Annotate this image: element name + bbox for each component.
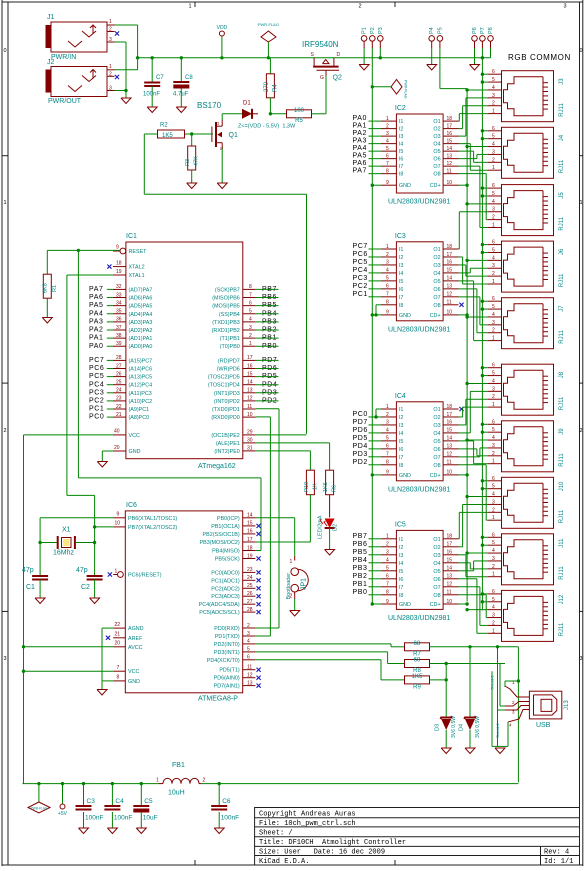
svg-text:1: 1	[3, 200, 6, 206]
svg-text:5: 5	[386, 566, 389, 572]
wire IC1 GND	[102, 450, 113, 452]
svg-text:6: 6	[386, 574, 389, 580]
svg-text:PA5: PA5	[89, 302, 104, 309]
svg-text:(TOSC1)PD4: (TOSC1)PD4	[208, 383, 240, 389]
svg-text:VDD: VDD	[217, 25, 228, 31]
svg-text:3: 3	[3, 656, 6, 662]
svg-text:IRF9540N: IRF9540N	[302, 40, 339, 49]
svg-text:6: 6	[492, 240, 495, 246]
svg-text:O3: O3	[433, 553, 440, 559]
wire PE2 OC1B	[256, 434, 307, 436]
svg-text:11: 11	[447, 590, 452, 596]
svg-text:RJ11: RJ11	[559, 216, 565, 230]
svg-text:2: 2	[492, 215, 495, 221]
svg-text:PC7: PC7	[89, 357, 104, 364]
wire J3 commons	[482, 73, 488, 75]
svg-text:O5: O5	[433, 279, 440, 285]
no-connect IC1 XTAL2	[107, 265, 111, 269]
svg-text:24: 24	[116, 388, 122, 394]
svg-text:7: 7	[386, 452, 389, 458]
wire IC3 CD+	[459, 314, 468, 316]
svg-text:4: 4	[492, 312, 495, 318]
svg-text:PWR/OUT: PWR/OUT	[48, 98, 82, 105]
svg-text:PA2: PA2	[89, 327, 104, 334]
svg-text:PD4(XCK/T0): PD4(XCK/T0)	[207, 658, 240, 664]
svg-text:PA0: PA0	[89, 343, 104, 350]
svg-text:PA1: PA1	[353, 123, 368, 130]
op-amp IC6 right pins	[243, 517, 256, 519]
connector J7 RJ11	[502, 298, 554, 349]
svg-text:3: 3	[492, 320, 495, 326]
svg-text:I4: I4	[399, 142, 404, 148]
svg-text:28: 28	[116, 355, 122, 361]
svg-text:37: 37	[116, 325, 122, 331]
svg-text:9: 9	[116, 245, 119, 251]
svg-text:6: 6	[492, 476, 495, 482]
svg-text:Sheet: /: Sheet: /	[259, 829, 293, 837]
svg-text:(A13)PC5: (A13)PC5	[129, 375, 153, 381]
svg-text:ATMEGA8-P: ATMEGA8-P	[198, 696, 238, 703]
svg-text:9: 9	[117, 512, 120, 518]
svg-text:6: 6	[492, 363, 495, 369]
svg-text:25: 25	[116, 380, 122, 386]
svg-text:Copyright Andreas Auras: Copyright Andreas Auras	[259, 811, 356, 819]
svg-text:7: 7	[386, 292, 389, 298]
svg-text:8: 8	[386, 590, 389, 596]
svg-text:6: 6	[492, 126, 495, 132]
svg-text:PD1(TXD): PD1(TXD)	[215, 634, 240, 640]
svg-text:G: G	[320, 75, 324, 81]
svg-text:O5: O5	[433, 569, 440, 575]
svg-text:13: 13	[447, 574, 453, 580]
svg-text:IC4: IC4	[395, 393, 406, 400]
svg-text:Bootloader: Bootloader	[286, 573, 292, 600]
svg-text:(T1)PB1: (T1)PB1	[220, 336, 240, 342]
svg-text:(AD3)PA3: (AD3)PA3	[129, 320, 153, 326]
op-amp IC2 ULN2803	[396, 114, 443, 193]
svg-text:XTAL1: XTAL1	[129, 273, 145, 279]
svg-text:I2: I2	[399, 545, 404, 551]
svg-text:ATmega162: ATmega162	[198, 463, 236, 470]
svg-text:18: 18	[247, 545, 253, 551]
svg-text:8: 8	[249, 284, 252, 290]
svg-text:3: 3	[386, 131, 389, 137]
wire PD1 TXD0	[256, 408, 279, 410]
svg-text:File: 10ch_pwm_ctrl.sch: File: 10ch_pwm_ctrl.sch	[259, 820, 356, 828]
svg-text:PD5: PD5	[353, 435, 368, 442]
svg-text:PB2: PB2	[353, 573, 368, 580]
svg-text:PB6: PB6	[353, 541, 368, 548]
svg-text:RJ11: RJ11	[559, 566, 565, 580]
svg-text:O6: O6	[433, 157, 440, 163]
svg-text:20: 20	[115, 641, 121, 647]
svg-text:6: 6	[492, 183, 495, 189]
svg-text:3: 3	[386, 260, 389, 266]
wire shield	[491, 671, 493, 746]
resistor R1	[46, 250, 48, 274]
svg-text:J1: J1	[47, 14, 55, 21]
connector J3 RJ11	[502, 71, 554, 122]
svg-text:5: 5	[492, 427, 495, 433]
svg-text:18: 18	[447, 244, 453, 250]
wire D4 branch	[469, 647, 471, 718]
power VDD	[221, 36, 223, 58]
wire Q1 drain	[221, 114, 223, 120]
svg-text:3: 3	[492, 499, 495, 505]
svg-text:47K: 47K	[194, 156, 200, 166]
svg-text:O4: O4	[433, 561, 440, 567]
svg-text:PC5: PC5	[89, 373, 104, 380]
wire J5 commons	[482, 187, 488, 189]
svg-text:D1: D1	[243, 101, 251, 107]
svg-text:PA0: PA0	[353, 115, 368, 122]
op-amp IC4 ULN2803	[396, 402, 443, 481]
wire J7 commons	[482, 300, 488, 302]
svg-text:O5: O5	[433, 439, 440, 445]
svg-text:Q2: Q2	[333, 75, 342, 82]
svg-text:PB5: PB5	[353, 549, 368, 556]
no-connect IC6 AREF	[106, 636, 110, 640]
svg-text:P8: P8	[488, 27, 494, 34]
wire IC5 CD+	[459, 603, 468, 605]
svg-text:13: 13	[247, 388, 253, 394]
svg-text:RGB COMMON: RGB COMMON	[508, 53, 571, 62]
capacitor C6	[218, 784, 220, 806]
svg-text:RESET: RESET	[129, 249, 148, 255]
svg-text:(T0)PB0: (T0)PB0	[220, 344, 240, 350]
wire IC4 I1 tie	[376, 408, 381, 410]
svg-text:28: 28	[247, 607, 253, 613]
ground C8	[176, 107, 186, 113]
svg-text:I1: I1	[399, 247, 404, 253]
svg-text:I3: I3	[399, 423, 404, 429]
svg-text:3: 3	[579, 656, 582, 662]
wire rail right	[201, 783, 518, 785]
svg-text:O7: O7	[433, 455, 440, 461]
svg-text:26: 26	[247, 591, 253, 597]
svg-text:PC4: PC4	[89, 381, 104, 388]
svg-text:CD+: CD+	[430, 473, 441, 479]
svg-text:4: 4	[492, 142, 495, 148]
svg-text:R1: R1	[52, 285, 58, 292]
svg-text:(WR)PD6: (WR)PD6	[217, 367, 240, 373]
svg-text:I5: I5	[399, 439, 404, 445]
no-connect IC3 O8	[459, 303, 463, 307]
svg-text:PD0(RXD): PD0(RXD)	[214, 626, 240, 632]
svg-text:PC6(/RESET): PC6(/RESET)	[128, 573, 162, 579]
svg-text:RJ11: RJ11	[559, 329, 565, 343]
svg-text:17: 17	[447, 412, 453, 418]
wire J10 commons	[482, 480, 488, 482]
svg-text:5: 5	[492, 247, 495, 253]
svg-text:Shield-1: Shield-1	[490, 675, 495, 690]
svg-text:D3: D3	[435, 724, 441, 731]
svg-text:10: 10	[247, 412, 253, 418]
svg-text:2: 2	[492, 564, 495, 570]
svg-text:Id: 1/1: Id: 1/1	[544, 858, 573, 866]
svg-text:30: 30	[247, 438, 253, 444]
svg-text:3: 3	[492, 386, 495, 392]
no-connect IC6 reset	[108, 572, 112, 576]
op-amp IC3 ULN2803	[396, 242, 443, 321]
svg-text:O7: O7	[433, 164, 440, 170]
svg-text:(MOSI)PB5: (MOSI)PB5	[212, 304, 240, 310]
svg-text:PA4: PA4	[89, 310, 104, 317]
svg-text:1: 1	[492, 109, 495, 115]
svg-text:PB3(MOSI/OC2): PB3(MOSI/OC2)	[200, 540, 240, 546]
svg-text:32: 32	[116, 284, 122, 290]
svg-text:(OC1B)PE2: (OC1B)PE2	[211, 433, 239, 439]
svg-text:3: 3	[492, 149, 495, 155]
svg-text:PWR-FLAG: PWR-FLAG	[404, 80, 408, 99]
svg-text:4: 4	[492, 85, 495, 91]
svg-text:21: 21	[116, 412, 122, 418]
svg-text:4,7uF: 4,7uF	[173, 92, 189, 98]
svg-text:35: 35	[116, 309, 122, 315]
svg-text:100: 100	[294, 108, 305, 114]
svg-text:9: 9	[386, 310, 389, 316]
svg-text:6K8: 6K8	[43, 283, 49, 293]
svg-text:I8: I8	[399, 463, 404, 469]
svg-text:I2: I2	[399, 255, 404, 261]
power +5V	[62, 784, 64, 804]
svg-text:1: 1	[386, 244, 389, 250]
svg-text:C8: C8	[185, 75, 193, 81]
svg-text:PD7: PD7	[353, 419, 368, 426]
svg-text:25: 25	[247, 583, 253, 589]
svg-text:1: 1	[386, 534, 389, 540]
svg-text:Q1: Q1	[229, 132, 238, 139]
svg-text:GND: GND	[399, 602, 411, 608]
wire IC6.18	[255, 550, 261, 552]
svg-text:LED/2mA: LED/2mA	[318, 515, 324, 539]
wire IC6.17b	[255, 541, 258, 543]
svg-text:16: 16	[447, 131, 453, 137]
svg-text:R2: R2	[160, 123, 168, 129]
wire Q1 drain node	[222, 113, 242, 115]
svg-text:19: 19	[247, 553, 253, 559]
svg-text:2: 2	[492, 620, 495, 626]
svg-text:PA3: PA3	[353, 138, 368, 145]
svg-text:4: 4	[386, 138, 389, 144]
svg-text:3: 3	[492, 556, 495, 562]
connector J5 RJ11	[502, 185, 554, 236]
svg-text:4: 4	[492, 255, 495, 261]
svg-text:J6: J6	[559, 248, 565, 255]
svg-text:2: 2	[492, 271, 495, 277]
svg-text:14: 14	[447, 566, 453, 572]
svg-text:R5: R5	[295, 118, 303, 124]
svg-text:14: 14	[447, 436, 453, 442]
svg-text:(A10)PC2: (A10)PC2	[129, 399, 153, 405]
svg-text:1: 1	[492, 572, 495, 578]
wire P5 cd bus	[439, 48, 441, 89]
wire IC1 VCC	[24, 434, 113, 436]
svg-text:ULN2803/UDN2981: ULN2803/UDN2981	[388, 199, 450, 206]
svg-text:PC1: PC1	[353, 291, 368, 298]
svg-text:P5: P5	[437, 27, 443, 34]
svg-text:Z<=(VDD - 5,5V) 1,3W: Z<=(VDD - 5,5V) 1,3W	[238, 124, 296, 130]
svg-text:36: 36	[116, 317, 122, 323]
wire J4 commons	[482, 130, 488, 132]
svg-text:O7: O7	[433, 585, 440, 591]
svg-text:15: 15	[247, 521, 253, 527]
svg-text:C3: C3	[87, 798, 96, 805]
svg-text:IC5: IC5	[395, 521, 406, 528]
diode D2 LED	[325, 519, 335, 529]
svg-text:PWR-FLAG: PWR-FLAG	[31, 807, 48, 811]
svg-text:4: 4	[492, 378, 495, 384]
svg-text:P1: P1	[362, 27, 368, 34]
svg-text:8: 8	[386, 300, 389, 306]
no-connect IC4 O1	[459, 407, 463, 411]
svg-text:I8: I8	[399, 303, 404, 309]
connector J13 USB	[529, 691, 561, 719]
svg-text:O6: O6	[433, 447, 440, 453]
svg-text:18: 18	[447, 534, 453, 540]
svg-text:9: 9	[386, 599, 389, 605]
transistor Q2	[313, 58, 315, 66]
svg-text:PC4: PC4	[353, 267, 368, 274]
svg-text:P3: P3	[378, 27, 384, 34]
svg-text:PC2: PC2	[353, 283, 368, 290]
svg-text:(A14)PC6: (A14)PC6	[129, 367, 153, 373]
svg-text:2: 2	[249, 333, 252, 339]
svg-text:IC6: IC6	[126, 502, 137, 509]
svg-text:17: 17	[247, 537, 253, 543]
wire R2 left loop	[144, 133, 157, 135]
svg-text:P7: P7	[480, 27, 486, 34]
svg-text:33: 33	[116, 292, 122, 298]
svg-text:23: 23	[247, 567, 253, 573]
svg-text:6: 6	[492, 69, 495, 75]
svg-text:1: 1	[492, 279, 495, 285]
svg-text:12: 12	[247, 673, 253, 679]
svg-text:IC2: IC2	[395, 105, 406, 112]
svg-text:2: 2	[109, 27, 112, 33]
svg-text:J5: J5	[559, 192, 565, 199]
svg-text:J13: J13	[564, 700, 570, 710]
svg-text:2: 2	[386, 542, 389, 548]
wire Q1 source gnd	[221, 148, 223, 183]
svg-text:6: 6	[492, 419, 495, 425]
ground arrow	[474, 48, 476, 65]
svg-text:RJ11: RJ11	[559, 622, 565, 636]
svg-text:14: 14	[447, 276, 453, 282]
svg-text:17: 17	[447, 542, 453, 548]
svg-text:(A8)PC0: (A8)PC0	[129, 415, 150, 421]
svg-text:J7: J7	[559, 305, 565, 312]
svg-text:(AD5)PA5: (AD5)PA5	[129, 304, 153, 310]
svg-text:O8: O8	[433, 172, 440, 178]
svg-text:3: 3	[492, 613, 495, 619]
wire IC6.2	[255, 627, 258, 629]
wire VBUS	[517, 647, 519, 783]
svg-text:1: 1	[579, 200, 582, 206]
svg-text:I5: I5	[399, 149, 404, 155]
wire IC4 outputs to RJ11	[459, 416, 463, 418]
svg-text:PA3: PA3	[89, 318, 104, 325]
power flag PF3	[38, 784, 40, 802]
svg-text:I2: I2	[399, 127, 404, 133]
svg-text:I3: I3	[399, 263, 404, 269]
svg-text:I8: I8	[399, 172, 404, 178]
wire R5 to Q2 gate	[325, 74, 327, 114]
svg-text:PB1: PB1	[353, 581, 368, 588]
svg-text:14: 14	[247, 513, 253, 519]
svg-text:6: 6	[492, 296, 495, 302]
svg-text:12: 12	[247, 396, 253, 402]
svg-text:3: 3	[386, 550, 389, 556]
svg-text:RJ11: RJ11	[559, 273, 565, 287]
svg-text:I6: I6	[399, 157, 404, 163]
svg-text:PA4: PA4	[353, 145, 368, 152]
svg-text:2: 2	[492, 507, 495, 513]
wire xtal2 row	[95, 526, 114, 528]
svg-text:CD+: CD+	[430, 602, 441, 608]
svg-text:(MISO)PB6: (MISO)PB6	[212, 296, 240, 302]
svg-text:O2: O2	[433, 255, 440, 261]
svg-text:PC0: PC0	[353, 411, 368, 418]
svg-text:P2: P2	[370, 27, 376, 34]
svg-text:GND: GND	[399, 183, 411, 189]
svg-text:(RXD1)PB2: (RXD1)PB2	[212, 328, 240, 334]
wire J6 commons	[482, 244, 488, 246]
svg-text:(AD7)PA7: (AD7)PA7	[129, 287, 153, 293]
svg-text:(A9)PC1: (A9)PC1	[129, 407, 150, 413]
svg-text:16: 16	[447, 550, 453, 556]
svg-text:5: 5	[492, 134, 495, 140]
svg-text:J11: J11	[559, 538, 565, 548]
svg-text:ULN2803/UDN2981: ULN2803/UDN2981	[388, 486, 450, 493]
title block	[255, 808, 580, 866]
svg-text:J3: J3	[559, 78, 565, 85]
svg-text:5: 5	[386, 436, 389, 442]
transistor Q1	[211, 127, 213, 143]
resistor R6	[326, 470, 334, 495]
wire J2.3	[115, 90, 127, 92]
svg-text:I7: I7	[399, 295, 404, 301]
svg-text:4: 4	[492, 435, 495, 441]
svg-text:7: 7	[386, 161, 389, 167]
svg-text:31: 31	[247, 446, 253, 452]
svg-text:1: 1	[109, 19, 112, 25]
connector J1	[51, 22, 107, 52]
wire J1.3 down	[115, 41, 127, 43]
svg-text:R7: R7	[413, 652, 421, 658]
svg-text:9: 9	[386, 470, 389, 476]
svg-text:4: 4	[492, 199, 495, 205]
svg-text:6: 6	[386, 284, 389, 290]
svg-text:Rev: 4: Rev: 4	[544, 849, 569, 857]
svg-text:5: 5	[492, 540, 495, 546]
svg-text:100nF: 100nF	[143, 92, 160, 98]
svg-text:68: 68	[414, 641, 421, 647]
svg-text:PA6: PA6	[89, 294, 104, 301]
svg-text:PC5(ADC5/SCL): PC5(ADC5/SCL)	[199, 610, 240, 616]
wire usb gnd lead	[507, 722, 509, 746]
svg-text:2: 2	[203, 778, 206, 784]
wire IC6.3	[255, 635, 258, 637]
svg-text:16: 16	[247, 363, 253, 369]
svg-text:O4: O4	[433, 142, 440, 148]
svg-text:3: 3	[386, 420, 389, 426]
svg-text:IC1: IC1	[126, 233, 137, 240]
svg-text:14: 14	[247, 380, 253, 386]
resistor R2	[158, 130, 185, 138]
svg-text:R3: R3	[185, 159, 191, 166]
svg-text:I5: I5	[399, 279, 404, 285]
